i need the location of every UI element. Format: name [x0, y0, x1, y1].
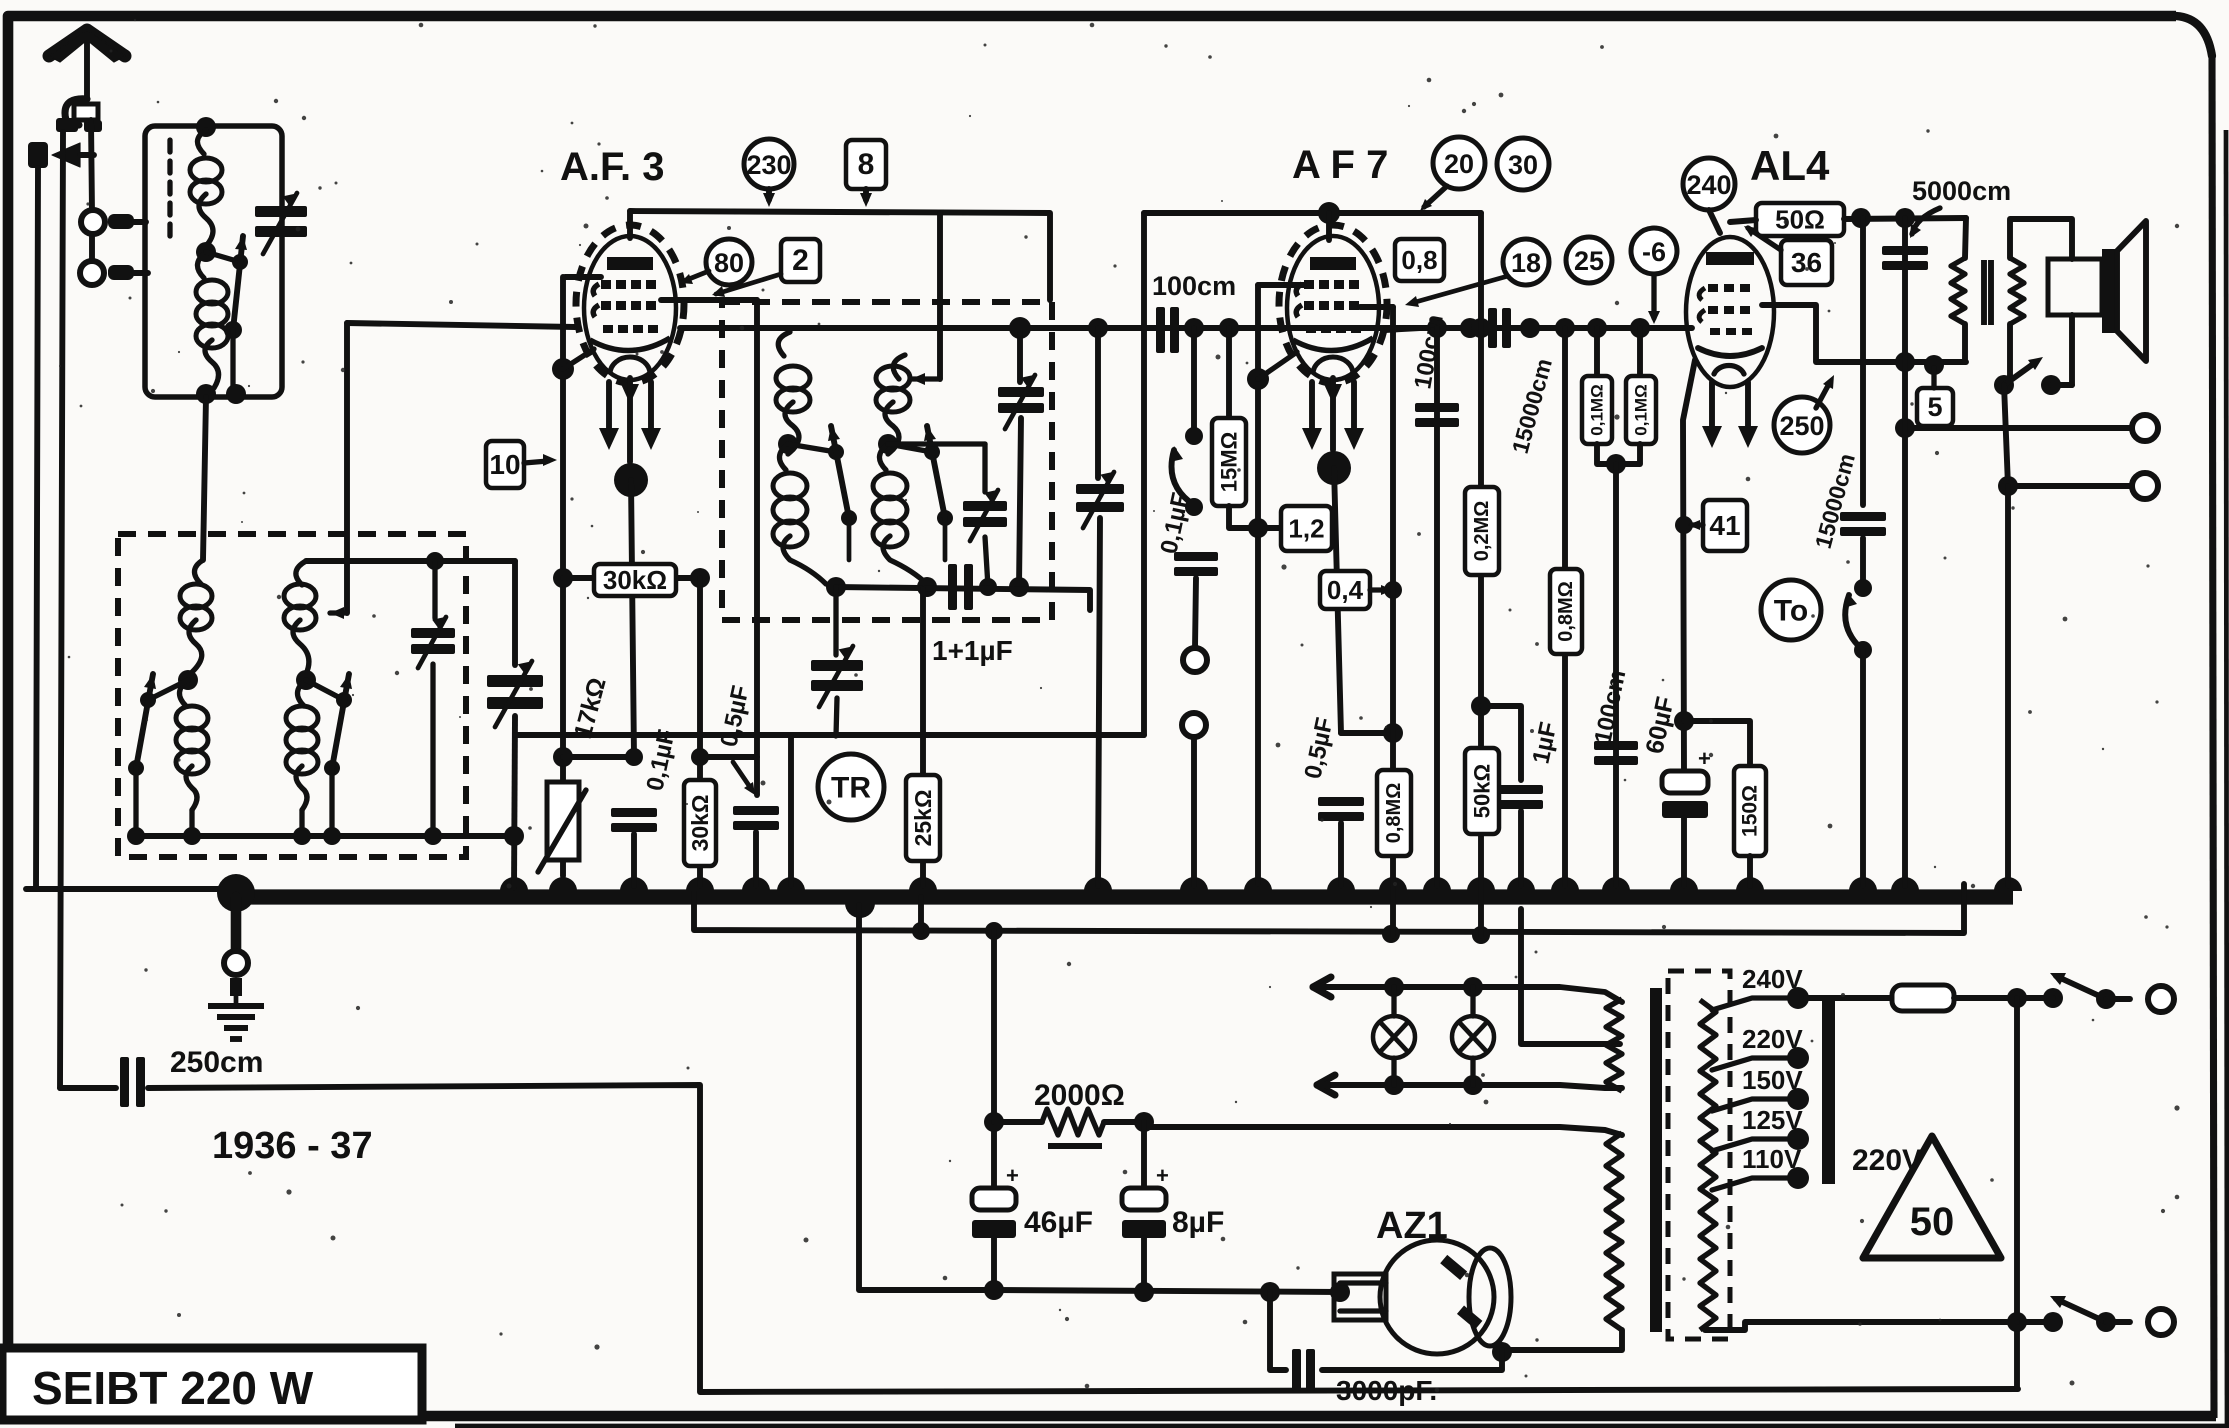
- svg-text:30kΩ: 30kΩ: [603, 565, 667, 595]
- svg-text:AL4: AL4: [1750, 142, 1830, 189]
- svg-text:240V: 240V: [1742, 964, 1803, 994]
- svg-text:3000pF.: 3000pF.: [1336, 1375, 1437, 1406]
- svg-text:0,1MΩ: 0,1MΩ: [1588, 384, 1607, 435]
- svg-text:1936 - 37: 1936 - 37: [212, 1125, 373, 1167]
- svg-text:+: +: [1156, 1163, 1169, 1188]
- svg-text:0,2MΩ: 0,2MΩ: [1471, 501, 1493, 562]
- svg-text:-6: -6: [1642, 237, 1666, 267]
- svg-text:2: 2: [792, 244, 809, 277]
- svg-text:150V: 150V: [1742, 1065, 1803, 1095]
- svg-text:10: 10: [489, 449, 520, 480]
- svg-text:46µF: 46µF: [1024, 1206, 1093, 1239]
- svg-text:220V: 220V: [1852, 1144, 1922, 1177]
- svg-text:0,8: 0,8: [1401, 245, 1437, 275]
- svg-text:110V: 110V: [1742, 1144, 1802, 1174]
- svg-text:8µF: 8µF: [1172, 1206, 1224, 1239]
- svg-text:5: 5: [1927, 392, 1942, 422]
- svg-text:220V: 220V: [1742, 1024, 1803, 1054]
- svg-text:TR: TR: [831, 772, 871, 805]
- svg-text:15MΩ: 15MΩ: [1217, 432, 1242, 492]
- svg-text:0,4: 0,4: [1327, 575, 1364, 605]
- svg-text:2000Ω: 2000Ω: [1034, 1079, 1125, 1112]
- svg-text:50kΩ: 50kΩ: [1470, 764, 1495, 818]
- svg-text:50Ω: 50Ω: [1775, 205, 1825, 235]
- svg-text:25kΩ: 25kΩ: [910, 790, 936, 847]
- svg-text:0,8MΩ: 0,8MΩ: [1555, 581, 1577, 642]
- svg-text:125V: 125V: [1742, 1105, 1803, 1135]
- svg-text:41: 41: [1709, 510, 1740, 541]
- svg-text:250cm: 250cm: [170, 1046, 263, 1079]
- svg-text:25: 25: [1574, 246, 1604, 276]
- svg-text:1,2: 1,2: [1288, 514, 1324, 544]
- svg-text:100cm: 100cm: [1152, 271, 1236, 301]
- svg-text:To: To: [1774, 595, 1808, 628]
- svg-text:30kΩ: 30kΩ: [687, 795, 713, 852]
- svg-text:8: 8: [858, 148, 875, 181]
- svg-text:80: 80: [714, 248, 744, 278]
- svg-text:+: +: [1006, 1163, 1019, 1188]
- svg-text:20: 20: [1444, 149, 1474, 179]
- svg-text:0,1MΩ: 0,1MΩ: [1632, 384, 1651, 435]
- svg-text:18: 18: [1511, 248, 1541, 278]
- svg-text:A F 7: A F 7: [1292, 143, 1388, 187]
- svg-text:SEIBT 220 W: SEIBT 220 W: [32, 1362, 314, 1414]
- svg-text:230: 230: [746, 150, 791, 180]
- svg-text:36: 36: [1791, 247, 1822, 278]
- svg-text:0,8MΩ: 0,8MΩ: [1383, 783, 1405, 844]
- svg-text:+: +: [1698, 746, 1711, 771]
- svg-text:150Ω: 150Ω: [1739, 785, 1762, 837]
- svg-text:A.F. 3: A.F. 3: [560, 145, 664, 189]
- svg-text:1+1µF: 1+1µF: [932, 635, 1013, 666]
- svg-text:5000cm: 5000cm: [1912, 176, 2011, 206]
- svg-text:30: 30: [1508, 150, 1538, 180]
- svg-text:240: 240: [1686, 170, 1731, 200]
- svg-text:250: 250: [1779, 411, 1824, 441]
- svg-text:50: 50: [1910, 1200, 1955, 1244]
